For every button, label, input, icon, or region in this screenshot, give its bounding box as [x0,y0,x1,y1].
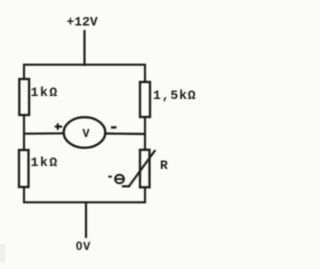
voltmeter V (meter circle) [64,117,106,148]
resistor R3 (bottom left, 1k) [19,150,29,187]
plus polarity mark at voltmeter left [55,123,62,129]
wire: 0V stub [85,202,87,238]
svg-text:1,5kΩ: 1,5kΩ [153,88,197,103]
minus polarity mark at voltmeter right [111,126,117,128]
resistor R1 (top left, 1k) [19,79,29,115]
thermistor diagonal stroke [129,150,156,187]
scan smudge left edge [0,244,5,262]
thermistor foot [122,185,130,187]
wire: bridge outer loop (top rail, left rail, right rail, bottom rail) [24,65,145,203]
svg-text:1kΩ: 1kΩ [31,155,59,170]
svg-text:0V: 0V [76,239,91,254]
svg-text:1kΩ: 1kΩ [31,85,59,100]
label -theta (temperature coefficient) [108,175,124,184]
resistor R2 (top right, 1.5k) [140,82,150,117]
svg-text:+12V: +12V [67,15,98,30]
svg-text:R: R [160,158,168,173]
wire: +12V supply stub [83,30,85,66]
svg-text:V: V [82,127,90,141]
wire: middle right segment (voltmeter to right rail) [103,132,145,135]
thermistor R (bottom right) body [140,150,150,188]
wire: middle left segment (left rail to voltmeter) [24,132,66,135]
